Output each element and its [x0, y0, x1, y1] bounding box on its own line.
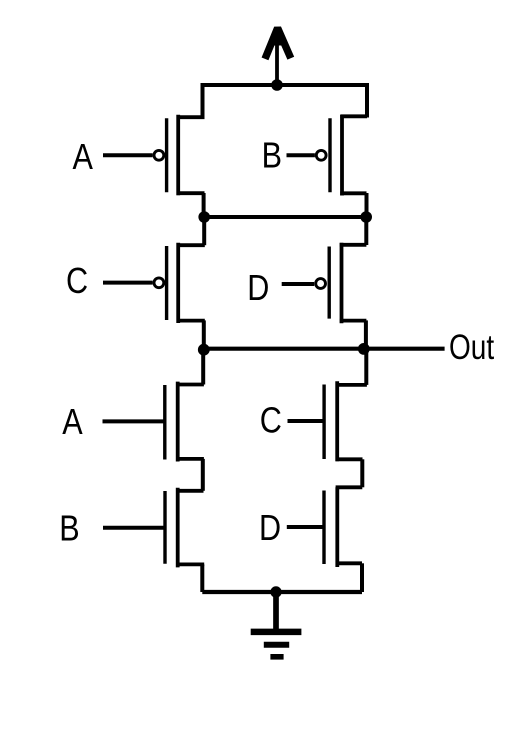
node mid rail right dot [360, 211, 372, 223]
VDD arrow (power symbol) [265, 28, 291, 85]
wire nmos A source to nmos B drain [201, 459, 205, 491]
wire gate D (PMOS) [282, 282, 315, 286]
wire pmos B drain to mid rail [365, 193, 369, 217]
svg-text:C: C [66, 262, 88, 302]
nmos D [324, 487, 362, 567]
wire nmos C source to nmos D drain [360, 459, 364, 487]
wire gate D (NMOS) [287, 525, 323, 529]
label C (input C, PMOS) [66, 262, 88, 302]
svg-text:B: B [59, 509, 79, 549]
node out rail right dot [358, 343, 370, 355]
label B (input B, PMOS) [262, 136, 282, 176]
pmos D [316, 243, 367, 323]
label Out (output node) [449, 327, 494, 367]
wire nmos B source to bottom rail [200, 564, 204, 592]
wire gate B (NMOS) [103, 526, 164, 530]
label D (input D, PMOS) [247, 269, 269, 309]
wire mid rail to pmos D source [364, 217, 368, 245]
wire pmos D drain to out rail [364, 320, 368, 349]
node bottom rail dot [270, 586, 281, 597]
nmos B [165, 488, 204, 568]
wire gate C (NMOS) [288, 419, 323, 423]
wire gate C (PMOS) [103, 281, 153, 285]
wire gate A (PMOS) [103, 153, 153, 157]
node out rail left dot [198, 344, 210, 356]
svg-text:D: D [259, 509, 281, 549]
svg-text:B: B [262, 136, 282, 176]
svg-text:A: A [73, 138, 94, 178]
label B (input B, NMOS) [59, 509, 79, 549]
label C (input C, NMOS) [260, 401, 282, 441]
pmos C [154, 243, 205, 323]
nmos C [324, 381, 367, 461]
nmos A [165, 382, 204, 462]
svg-text:A: A [62, 403, 83, 443]
node mid rail left dot [198, 211, 210, 223]
wire bottom rail (ground rail) [202, 590, 362, 594]
pmos B [316, 115, 367, 196]
svg-text:C: C [260, 401, 282, 441]
wire top rail (VDD rail) [203, 85, 368, 118]
svg-text:D: D [247, 269, 269, 309]
wire pmos C drain to out rail [202, 320, 206, 349]
wire mid rail (PMOS series node) [204, 215, 366, 219]
svg-text:Out: Out [449, 327, 494, 367]
node VDD junction dot [271, 79, 283, 91]
wire out rail to nmos C drain [364, 349, 368, 385]
label A (input A, PMOS) [73, 138, 94, 178]
label D (input D, NMOS) [259, 509, 281, 549]
label A (input A, NMOS) [62, 403, 83, 443]
wire mid rail to pmos C source [202, 217, 206, 245]
wire gate B (PMOS) [287, 153, 315, 157]
ground [251, 592, 302, 657]
wire pmos A drain to mid rail [202, 193, 206, 217]
wire out rail [204, 347, 445, 351]
wire nmos D source to bottom rail [360, 563, 364, 592]
wire gate A (NMOS) [103, 419, 165, 423]
pmos A [154, 115, 205, 196]
wire out rail to nmos A drain [201, 349, 205, 385]
